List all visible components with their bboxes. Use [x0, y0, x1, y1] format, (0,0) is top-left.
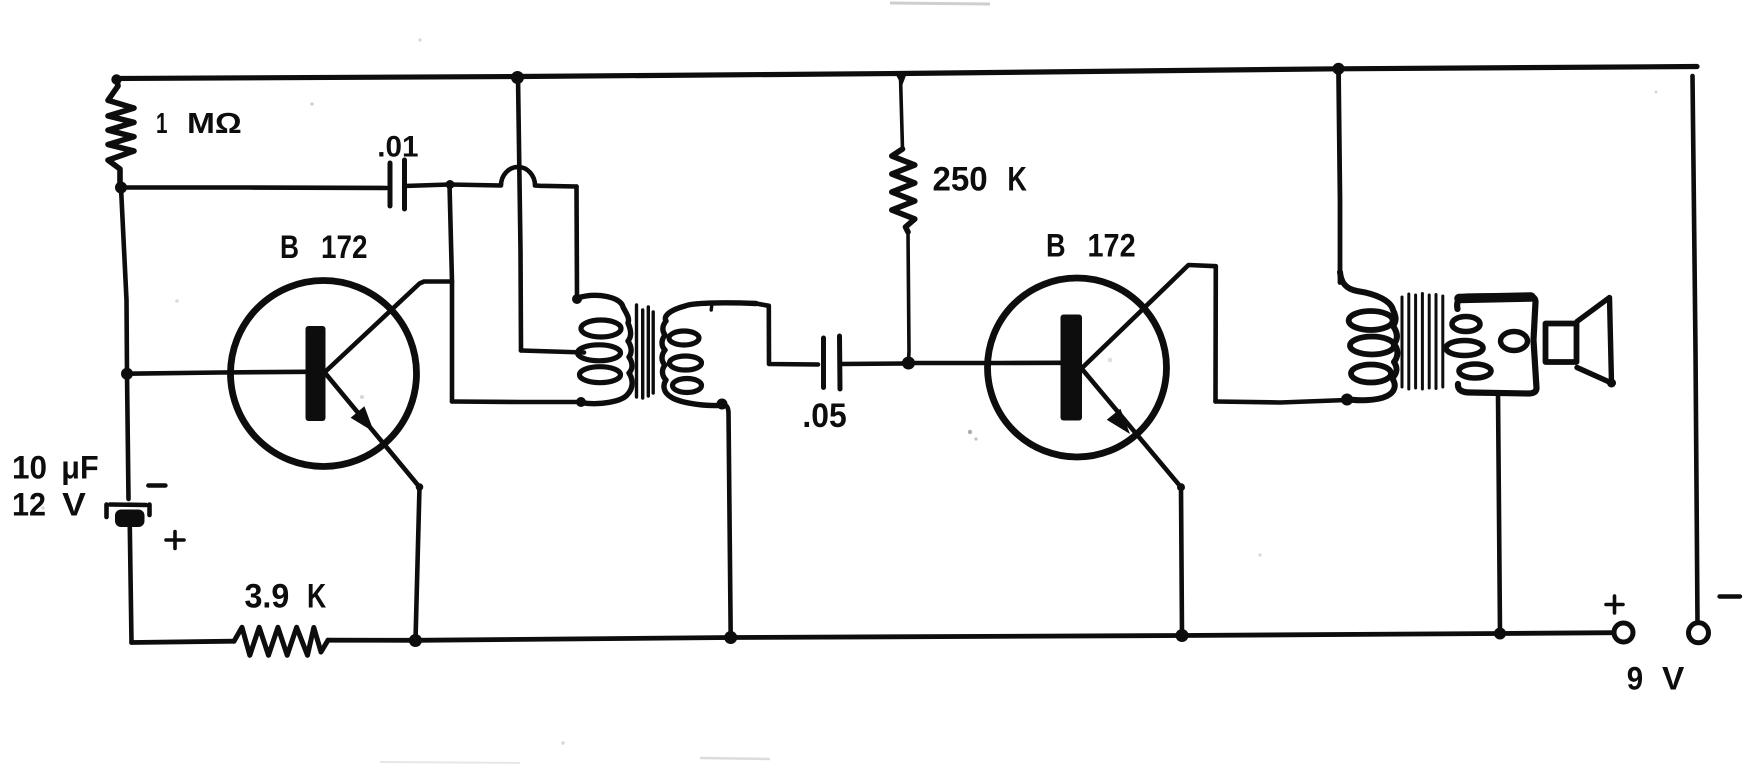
svg-text:V: V — [1662, 661, 1685, 697]
svg-text:μF: μF — [61, 450, 98, 486]
svg-text:3.9: 3.9 — [245, 577, 290, 615]
svg-text:V: V — [62, 487, 86, 523]
svg-text:1: 1 — [156, 108, 168, 140]
svg-text:.01: .01 — [377, 130, 418, 163]
svg-text:172: 172 — [1088, 227, 1136, 263]
svg-text:B: B — [280, 229, 299, 265]
svg-text:K: K — [307, 577, 327, 615]
svg-text:MΩ: MΩ — [187, 108, 242, 140]
svg-text:250: 250 — [933, 160, 988, 198]
svg-text:12: 12 — [12, 487, 46, 523]
svg-text:B: B — [1046, 227, 1066, 263]
svg-text:9: 9 — [1627, 661, 1643, 697]
svg-text:172: 172 — [321, 229, 368, 265]
svg-text:K: K — [1007, 160, 1027, 198]
svg-text:10: 10 — [12, 450, 47, 486]
svg-text:.05: .05 — [802, 397, 846, 435]
